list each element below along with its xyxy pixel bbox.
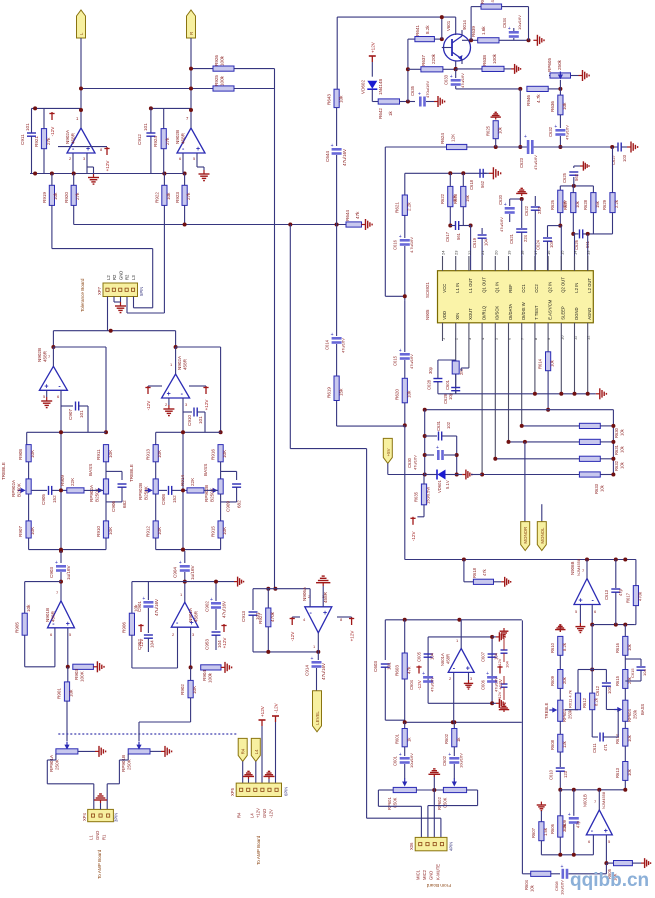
svg-text:Q2 IN: Q2 IN [547, 282, 552, 293]
svg-text:C633: C633 [444, 74, 449, 85]
svg-text:10k: 10k [627, 768, 632, 776]
svg-text:R640: R640 [480, 0, 485, 4]
svg-text:4.7k: 4.7k [536, 94, 541, 103]
svg-text:C603: C603 [373, 661, 378, 672]
svg-text:10k: 10k [575, 200, 580, 208]
svg-text:14: 14 [573, 250, 578, 255]
svg-text:10K: 10K [157, 449, 162, 458]
svg-text:104: 104 [484, 238, 489, 246]
svg-text:682: 682 [237, 500, 242, 508]
svg-text:C627: C627 [611, 154, 616, 165]
svg-text:10K: 10K [192, 685, 197, 694]
svg-text:RP601: RP601 [387, 797, 392, 810]
svg-text:16: 16 [546, 250, 551, 255]
svg-text:15k: 15k [339, 388, 344, 396]
svg-text:AGND: AGND [587, 308, 592, 320]
svg-text:10k: 10k [620, 428, 625, 436]
svg-text:L3: L3 [131, 275, 136, 280]
svg-text:B250K: B250K [17, 482, 22, 497]
svg-text:N905: N905 [425, 309, 430, 320]
svg-text:C619: C619 [472, 237, 477, 248]
svg-text:N902B: N902B [175, 130, 180, 144]
svg-text:+: + [604, 828, 608, 835]
svg-text:N902B: N902B [37, 348, 42, 362]
svg-text:23: 23 [454, 250, 459, 255]
svg-text:R915: R915 [211, 526, 216, 537]
svg-text:RP605: RP605 [547, 58, 552, 72]
svg-text:R641: R641 [415, 25, 420, 36]
svg-text:C911: C911 [20, 134, 25, 145]
svg-text:C906: C906 [111, 501, 116, 512]
svg-text:C630: C630 [407, 457, 412, 468]
svg-text:-12V: -12V [146, 400, 151, 411]
svg-text:R621: R621 [395, 202, 400, 213]
svg-text:458R: 458R [183, 358, 188, 370]
svg-text:L2 OUT: L2 OUT [587, 278, 592, 293]
svg-text:R626: R626 [550, 199, 555, 210]
svg-text:-12V: -12V [290, 631, 295, 642]
svg-text:C607: C607 [481, 651, 486, 662]
svg-text:C628: C628 [427, 379, 432, 390]
svg-text:47u/16V: 47u/16V [499, 217, 504, 232]
svg-text:VD602: VD602 [361, 80, 366, 94]
svg-text:BASS: BASS [640, 704, 645, 715]
svg-text:R631: R631 [614, 444, 619, 455]
svg-text:ID/SCK: ID/SCK [495, 306, 500, 320]
svg-text:C618: C618 [469, 179, 474, 190]
svg-text:R4: R4 [237, 812, 242, 818]
svg-text:104: 104 [505, 661, 510, 668]
svg-text:R914: R914 [180, 475, 185, 486]
svg-text:220k: 220k [431, 53, 436, 64]
svg-text:C905: C905 [41, 494, 46, 505]
svg-text:47u/16V: 47u/16V [565, 125, 570, 140]
svg-text:R606: R606 [550, 823, 555, 834]
svg-text:R907: R907 [18, 526, 23, 537]
svg-text:5.1V: 5.1V [445, 480, 450, 489]
svg-text:1N4148: 1N4148 [378, 78, 383, 95]
svg-text:104: 104 [642, 669, 647, 676]
svg-text:B250K: B250K [144, 485, 149, 500]
svg-text:RP902B: RP902B [204, 485, 209, 502]
svg-text:101: 101 [143, 123, 148, 131]
svg-text:+: + [579, 598, 583, 605]
svg-text:DGND: DGND [574, 307, 579, 319]
svg-text:R619: R619 [327, 387, 332, 398]
svg-text:104: 104 [549, 240, 554, 248]
svg-text:C913: C913 [241, 611, 246, 622]
svg-text:458R: 458R [43, 350, 48, 362]
svg-text:T TEST: T TEST [534, 305, 539, 320]
svg-text:100k: 100k [220, 75, 225, 86]
svg-text:+5V: +5V [386, 448, 391, 456]
svg-text:47u/16V: 47u/16V [460, 73, 465, 88]
svg-text:+: + [66, 621, 70, 628]
svg-text:SLEEP: SLEEP [561, 306, 566, 320]
svg-text:L1: L1 [89, 835, 94, 840]
svg-text:R902: R902 [180, 684, 185, 695]
svg-text:12K: 12K [451, 133, 456, 142]
svg-text:R904: R904 [202, 670, 207, 681]
svg-text:XP5: XP5 [230, 787, 235, 796]
svg-text:104: 104 [494, 652, 499, 660]
svg-text:R2: R2 [112, 274, 117, 280]
svg-text:47u/16V: 47u/16V [533, 155, 538, 170]
svg-text:N901B: N901B [45, 608, 50, 622]
svg-text:21: 21 [480, 250, 485, 255]
svg-text:R633: R633 [594, 483, 599, 494]
svg-text:27k: 27k [165, 137, 170, 145]
svg-text:GND: GND [95, 831, 100, 840]
svg-text:10k: 10k [627, 734, 632, 742]
svg-text:V601: V601 [446, 20, 451, 31]
svg-text:B250K: B250K [210, 487, 215, 502]
svg-text:24: 24 [441, 250, 446, 255]
svg-text:RP902A: RP902A [89, 484, 94, 502]
svg-text:10K: 10K [108, 449, 113, 458]
svg-text:10k: 10k [620, 445, 625, 453]
svg-text:R642: R642 [378, 108, 383, 119]
svg-text:10u/16V: 10u/16V [409, 753, 414, 768]
svg-text:+: + [142, 596, 145, 602]
svg-text:C601: C601 [445, 379, 450, 390]
svg-text:Q2 OUT: Q2 OUT [561, 277, 566, 293]
svg-text:470k: 470k [270, 611, 275, 622]
svg-text:+: + [568, 812, 571, 818]
svg-text:GND: GND [262, 809, 267, 818]
svg-text:561: 561 [456, 232, 461, 240]
svg-text:10K: 10K [157, 526, 162, 535]
svg-text:C912: C912 [137, 134, 142, 145]
svg-text:+12V: +12V [498, 678, 503, 690]
svg-text:250k: 250k [557, 59, 562, 70]
svg-text:R1: R1 [102, 834, 107, 840]
svg-text:10K: 10K [222, 449, 227, 458]
svg-text:R920: R920 [64, 192, 69, 203]
svg-text:+: + [44, 383, 48, 390]
svg-text:-12V: -12V [417, 679, 422, 690]
svg-text:C952: C952 [137, 639, 142, 650]
svg-text:470u/16V: 470u/16V [425, 81, 430, 98]
svg-text:R607: R607 [531, 827, 536, 838]
svg-text:3PIN: 3PIN [114, 813, 119, 822]
svg-text:47u/16V: 47u/16V [413, 455, 418, 470]
svg-text:N902A: N902A [177, 355, 182, 370]
svg-text:22K: 22K [70, 477, 75, 486]
svg-text:R624: R624 [440, 133, 445, 144]
svg-text:100K: 100K [80, 670, 85, 682]
svg-text:Q1 OUT: Q1 OUT [481, 277, 486, 293]
svg-text:104: 104 [607, 686, 612, 694]
svg-text:10K: 10K [30, 526, 35, 535]
svg-text:R909: R909 [60, 475, 65, 486]
svg-text:10k: 10k [407, 390, 412, 398]
svg-text:152: 152 [172, 495, 177, 503]
svg-text:6PIN: 6PIN [284, 787, 289, 796]
svg-text:R625: R625 [486, 125, 491, 136]
svg-text:13: 13 [586, 250, 591, 255]
svg-text:17: 17 [533, 250, 538, 255]
svg-text:8.2k: 8.2k [425, 25, 430, 34]
svg-text:R623: R623 [453, 193, 458, 204]
svg-text:R922: R922 [155, 192, 160, 203]
svg-text:+12V: +12V [105, 160, 110, 172]
svg-text:10k: 10k [53, 192, 58, 200]
svg-text:104: 104 [150, 640, 155, 648]
svg-text:+: + [331, 143, 334, 149]
svg-text:18: 18 [520, 250, 525, 255]
svg-text:R908: R908 [18, 449, 23, 460]
svg-text:R911: R911 [96, 449, 101, 460]
svg-text:CC2: CC2 [534, 284, 539, 293]
svg-text:TREBLE: TREBLE [544, 703, 549, 719]
svg-text:10k: 10k [69, 689, 74, 697]
svg-text:C612: C612 [595, 685, 600, 696]
svg-text:+: + [323, 610, 327, 617]
svg-text:C904: C904 [173, 567, 178, 578]
svg-text:10k: 10k [627, 643, 632, 651]
svg-text:22K: 22K [190, 477, 195, 486]
svg-text:C620: C620 [498, 194, 503, 205]
svg-text:+: + [399, 348, 402, 354]
svg-text:R643: R643 [327, 94, 332, 105]
svg-text:Q1 IN: Q1 IN [495, 282, 500, 293]
svg-text:47u/16V: 47u/16V [341, 338, 346, 353]
svg-text:10k: 10k [339, 95, 344, 103]
svg-text:R635: R635 [414, 491, 419, 502]
svg-text:C635: C635 [410, 85, 415, 96]
svg-text:C615: C615 [393, 355, 398, 366]
svg-text:E.ASY/CM: E.ASY/CM [547, 299, 552, 320]
svg-text:R608: R608 [550, 739, 555, 750]
svg-text:4PIN: 4PIN [449, 842, 454, 851]
svg-text:N906A: N906A [302, 586, 307, 601]
svg-text:8.2k: 8.2k [562, 642, 567, 651]
svg-text:XIN: XIN [455, 313, 460, 320]
svg-text:C614: C614 [325, 339, 330, 350]
svg-text:+: + [331, 332, 334, 338]
svg-text:R912: R912 [146, 526, 151, 537]
svg-text:47u/16V: 47u/16V [222, 600, 227, 618]
svg-text:NJM4558: NJM4558 [601, 791, 606, 809]
svg-text:27k: 27k [75, 192, 80, 200]
svg-text:150/0.5W: 150/0.5W [426, 487, 431, 504]
svg-text:2.2k: 2.2k [407, 202, 412, 211]
svg-text:15k: 15k [595, 200, 600, 208]
svg-text:R622: R622 [440, 193, 445, 204]
svg-text:To AMP Board: To AMP Board [97, 849, 102, 879]
svg-text:100k: 100k [220, 55, 225, 66]
svg-text:N901A: N901A [188, 607, 193, 622]
svg-text:R627: R627 [563, 199, 568, 210]
svg-text:R639: R639 [471, 26, 476, 37]
svg-text:N902A: N902A [65, 129, 70, 144]
svg-text:K-MUTE: K-MUTE [435, 864, 440, 880]
svg-text:20: 20 [493, 250, 498, 255]
svg-text:100k: 100k [492, 53, 497, 64]
svg-text:+: + [167, 391, 171, 398]
svg-text:+: + [524, 134, 527, 140]
svg-text:R610: R610 [550, 642, 555, 653]
svg-text:C644: C644 [325, 151, 330, 162]
svg-text:L4: L4 [254, 749, 259, 754]
svg-text:104: 104 [430, 652, 435, 660]
svg-text:R919: R919 [42, 192, 47, 203]
svg-text:RP902B: RP902B [138, 483, 143, 500]
svg-text:C901: C901 [137, 601, 142, 612]
svg-text:C908: C908 [161, 494, 166, 505]
svg-text:TREBLE: TREBLE [129, 464, 134, 482]
svg-text:C605: C605 [417, 651, 422, 662]
svg-text:47p: 47p [618, 588, 623, 596]
svg-text:C909: C909 [226, 501, 231, 512]
svg-text:562: 562 [480, 180, 485, 188]
svg-text:471: 471 [603, 743, 608, 751]
svg-text:C632: C632 [548, 126, 553, 137]
svg-text:10k: 10k [600, 484, 605, 492]
svg-text:+12V: +12V [204, 399, 209, 411]
svg-text:2.2k: 2.2k [614, 199, 619, 208]
svg-text:R611 4.7k: R611 4.7k [568, 690, 573, 708]
svg-text:47u/16V: 47u/16V [154, 598, 159, 616]
svg-text:C613: C613 [604, 589, 609, 600]
svg-text:C602: C602 [442, 755, 447, 766]
svg-text:+: + [561, 864, 564, 870]
svg-text:N601A: N601A [440, 653, 445, 666]
svg-text:-12V: -12V [274, 702, 279, 713]
svg-text:10k: 10k [530, 884, 535, 892]
svg-text:458R: 458R [51, 610, 56, 622]
svg-text:BASS: BASS [88, 464, 93, 476]
svg-text:R921: R921 [34, 136, 39, 147]
svg-text:+: + [399, 234, 402, 240]
svg-text:RP602: RP602 [437, 797, 442, 810]
svg-text:19: 19 [507, 250, 512, 255]
svg-text:10u/16V: 10u/16V [560, 880, 565, 895]
svg-text:47u/16V: 47u/16V [321, 662, 326, 680]
svg-text:C623: C623 [519, 157, 524, 168]
svg-text:R924: R924 [153, 136, 158, 147]
svg-text:1.5k: 1.5k [543, 827, 548, 836]
svg-text:123: 123 [563, 770, 568, 778]
svg-text:4.7k: 4.7k [490, 0, 495, 3]
svg-text:+12V: +12V [222, 637, 227, 649]
svg-text:12k: 12k [562, 740, 567, 748]
svg-text:101: 101 [79, 410, 84, 418]
svg-text:4.7u/16V: 4.7u/16V [409, 237, 414, 253]
svg-text:MIC1: MIC1 [416, 869, 421, 880]
svg-text:R927: R927 [258, 613, 263, 624]
svg-text:R906: R906 [122, 622, 127, 633]
svg-text:-12V: -12V [411, 531, 416, 542]
svg-text:10K: 10K [222, 526, 227, 535]
svg-text:C625: C625 [562, 172, 567, 183]
svg-text:DI/DIS W: DI/DIS W [521, 302, 526, 319]
svg-text:101: 101 [387, 662, 392, 670]
svg-text:R926: R926 [214, 55, 219, 66]
svg-text:C903: C903 [49, 567, 54, 578]
svg-text:XP4: XP4 [82, 812, 87, 821]
svg-text:R620: R620 [395, 389, 400, 400]
svg-text:+: + [179, 560, 182, 566]
svg-text:+: + [422, 671, 425, 677]
svg-text:22: 22 [467, 250, 472, 255]
svg-text:102: 102 [446, 421, 451, 429]
svg-text:+: + [448, 752, 451, 758]
svg-text:+12V: +12V [256, 808, 261, 818]
svg-text:DI/RLQ: DI/RLQ [481, 305, 486, 320]
svg-text:1u/16V: 1u/16V [66, 565, 71, 580]
svg-text:224: 224 [523, 234, 528, 242]
svg-text:+: + [399, 752, 402, 758]
svg-text:-12V: -12V [50, 126, 55, 137]
svg-text:104: 104 [217, 640, 222, 648]
svg-text:R628: R628 [583, 199, 588, 210]
svg-text:R617: R617 [626, 592, 631, 603]
svg-text:1u/16V: 1u/16V [190, 565, 195, 580]
svg-text:R: R [189, 32, 194, 35]
svg-text:+: + [436, 445, 439, 451]
svg-text:+: + [450, 74, 453, 80]
svg-text:C617: C617 [445, 231, 450, 242]
svg-text:+12V: +12V [370, 41, 375, 53]
svg-text:R609: R609 [550, 675, 555, 686]
svg-text:B250K: B250K [95, 487, 100, 502]
svg-text:C631: C631 [436, 420, 441, 431]
svg-text:47u/16V: 47u/16V [342, 148, 347, 166]
svg-text:From Board: From Board [426, 883, 451, 888]
svg-text:27k: 27k [46, 137, 51, 145]
svg-text:1k: 1k [388, 110, 393, 116]
svg-text:10u/16V: 10u/16V [459, 753, 464, 768]
svg-text:C601: C601 [393, 755, 398, 766]
svg-text:100k: 100k [208, 672, 213, 683]
svg-text:+12V: +12V [350, 630, 355, 642]
svg-text:L1 OUT: L1 OUT [468, 278, 473, 293]
svg-text:MONOR: MONOR [523, 527, 528, 544]
svg-text:R916: R916 [211, 449, 216, 460]
svg-text:+: + [55, 560, 58, 566]
svg-text:C615: C615 [630, 668, 635, 678]
svg-text:XP7: XP7 [97, 286, 102, 295]
svg-text:+: + [311, 656, 314, 662]
svg-text:R637: R637 [421, 55, 426, 66]
svg-text:9014: 9014 [462, 20, 467, 30]
svg-text:47k: 47k [482, 568, 487, 576]
svg-text:R618: R618 [472, 567, 477, 578]
svg-text:C611: C611 [592, 743, 597, 753]
svg-text:15: 15 [559, 250, 564, 255]
svg-text:L2: L2 [106, 275, 111, 280]
svg-text:N906B: N906B [570, 562, 575, 575]
svg-text:R614: R614 [615, 733, 620, 744]
svg-text:30p: 30p [428, 366, 433, 374]
svg-text:C914: C914 [305, 665, 310, 676]
svg-text:R4: R4 [241, 748, 246, 754]
svg-text:15k: 15k [465, 194, 470, 202]
svg-text:R612: R612 [582, 697, 587, 708]
svg-text:103: 103 [622, 154, 627, 162]
svg-text:+: + [508, 26, 511, 32]
svg-text:TREBLE: TREBLE [1, 462, 6, 480]
svg-text:C608: C608 [554, 881, 559, 891]
svg-text:8.2k: 8.2k [594, 697, 599, 706]
svg-text:VCC: VCC [442, 284, 447, 293]
svg-text:682: 682 [122, 500, 127, 508]
svg-text:R901: R901 [57, 688, 62, 699]
svg-text:223: 223 [537, 206, 542, 214]
svg-text:R602: R602 [444, 733, 449, 744]
